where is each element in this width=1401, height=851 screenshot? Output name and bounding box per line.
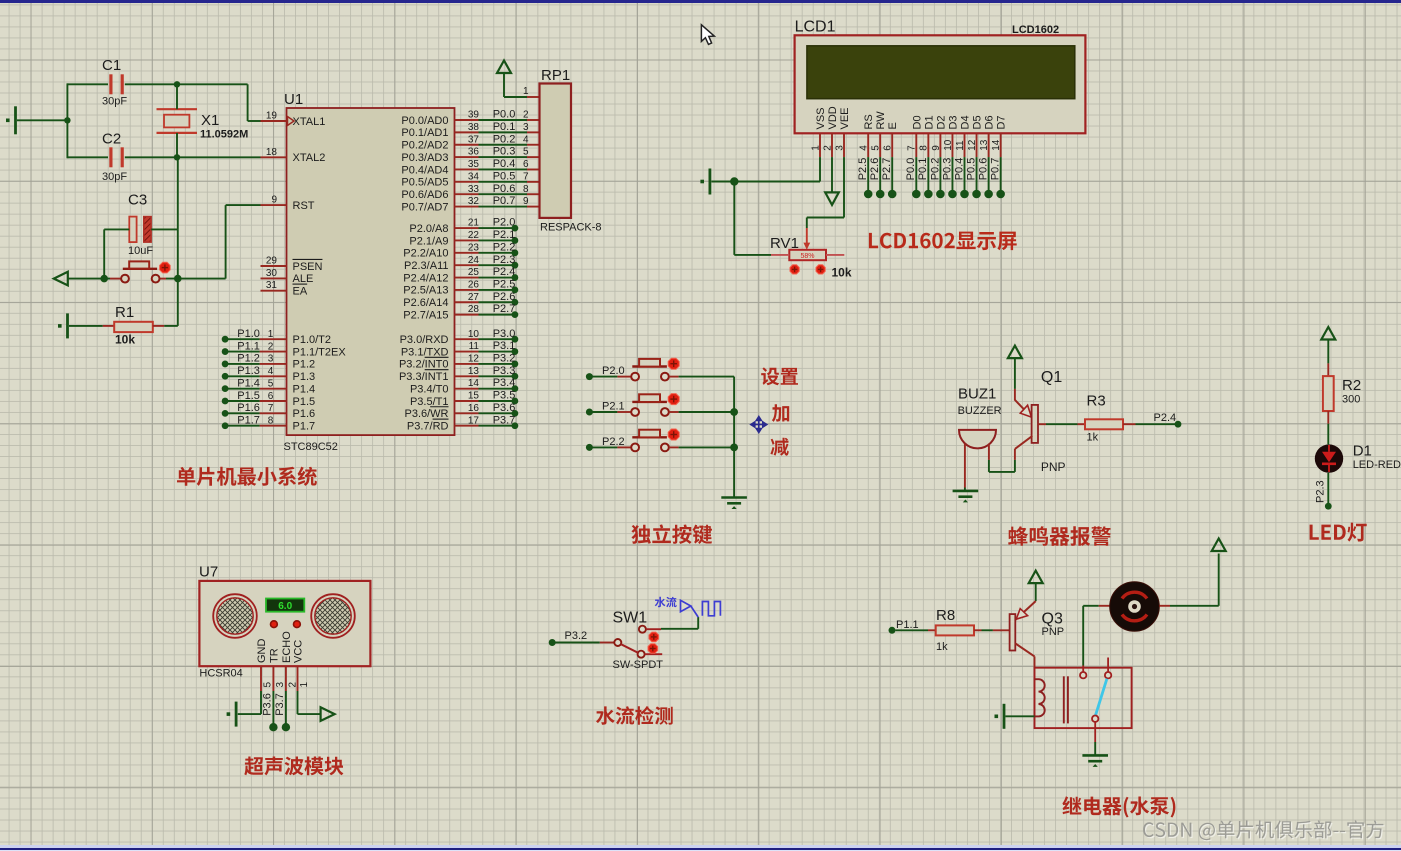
svg-text:31: 31 bbox=[266, 280, 278, 291]
ground (buzzer) bbox=[964, 488, 966, 491]
svg-text:PSEN: PSEN bbox=[293, 261, 323, 273]
wire/node P0.5 bbox=[976, 157, 978, 190]
diode D1 LED-RED bbox=[1315, 444, 1343, 472]
svg-text:2: 2 bbox=[822, 145, 833, 151]
svg-text:P0.0/AD0: P0.0/AD0 bbox=[401, 115, 448, 127]
svg-text:P0.1: P0.1 bbox=[493, 121, 516, 133]
caption: water flow detect bbox=[596, 706, 673, 725]
junction bbox=[174, 275, 182, 283]
svg-text:LCD1602: LCD1602 bbox=[1012, 24, 1059, 36]
svg-text:5: 5 bbox=[871, 145, 882, 151]
svg-text:D1: D1 bbox=[1353, 442, 1372, 459]
pin 2 P1.1 bbox=[260, 351, 287, 353]
svg-text:XTAL1: XTAL1 bbox=[293, 116, 326, 128]
svg-text:4: 4 bbox=[268, 366, 274, 377]
svg-text:P0.3: P0.3 bbox=[493, 146, 516, 158]
svg-text:P2.7: P2.7 bbox=[881, 158, 893, 181]
ground (R1) bbox=[66, 313, 69, 338]
pin 24 P2.3/A11 bbox=[455, 264, 479, 266]
wire bbox=[1094, 742, 1096, 755]
svg-text:VCC: VCC bbox=[293, 640, 305, 663]
svg-text:37: 37 bbox=[468, 134, 480, 145]
svg-text:P3.1/TXD: P3.1/TXD bbox=[401, 346, 449, 358]
pin 30 ALE bbox=[261, 277, 287, 279]
pin 3 RP1 bbox=[527, 131, 540, 133]
svg-text:30: 30 bbox=[266, 268, 278, 279]
svg-text:P2.6/A14: P2.6/A14 bbox=[403, 297, 448, 309]
svg-text:P2.1: P2.1 bbox=[602, 400, 625, 412]
pin 17 P3.7/RD bbox=[455, 425, 479, 427]
crystal X1 bbox=[164, 115, 189, 128]
wire/node P3.7 bbox=[285, 691, 287, 724]
pin 5 P1.4 bbox=[260, 388, 287, 390]
svg-text:23: 23 bbox=[468, 242, 480, 253]
svg-text:19: 19 bbox=[266, 111, 278, 122]
junction bbox=[100, 275, 108, 283]
node P2.0 bbox=[586, 373, 593, 380]
svg-text:5: 5 bbox=[268, 378, 274, 389]
svg-text:3: 3 bbox=[834, 145, 845, 151]
svg-text:GND: GND bbox=[256, 639, 268, 664]
wire bbox=[166, 278, 226, 280]
svg-text:D4: D4 bbox=[960, 115, 972, 129]
pin 9 RST bbox=[261, 204, 287, 206]
transistor Q1 PNP bbox=[1014, 389, 1016, 401]
svg-text:P0.0: P0.0 bbox=[905, 158, 917, 181]
svg-text:58%: 58% bbox=[800, 253, 814, 260]
ground (relay coil) bbox=[1003, 704, 1006, 729]
wire (Q1 base) bbox=[1046, 423, 1078, 425]
wire / node P2.4 bbox=[1136, 423, 1176, 425]
svg-text:34: 34 bbox=[468, 171, 480, 182]
svg-text:PNP: PNP bbox=[1042, 626, 1065, 638]
resistor R1 bbox=[103, 325, 114, 327]
svg-text:P3.0: P3.0 bbox=[493, 328, 516, 340]
svg-text:3: 3 bbox=[275, 682, 286, 688]
pin 26 P2.5/A13 bbox=[455, 289, 479, 291]
pin 23 P2.2/A10 bbox=[455, 252, 479, 254]
junction B bbox=[174, 154, 180, 160]
pin 2 RP1 bbox=[527, 119, 540, 121]
relay contacts bbox=[1082, 666, 1084, 672]
node P3.0 bbox=[479, 338, 515, 340]
pin 7 P1.6 bbox=[260, 412, 287, 414]
wire bbox=[896, 629, 929, 631]
mouse cursor bbox=[701, 25, 714, 45]
pin 27 P2.6/A14 bbox=[455, 301, 479, 303]
svg-text:P2.5/A13: P2.5/A13 bbox=[403, 285, 448, 297]
pin 13 P3.3/INT1 bbox=[455, 375, 479, 377]
capacitor C1 bbox=[67, 83, 108, 85]
svg-text:P0.1/AD1: P0.1/AD1 bbox=[401, 127, 448, 139]
svg-text:28: 28 bbox=[468, 304, 480, 315]
svg-text:11.0592M: 11.0592M bbox=[200, 129, 248, 141]
svg-text:P1.7: P1.7 bbox=[237, 415, 260, 427]
transistor Q3 PNP bbox=[993, 629, 1010, 631]
wire bbox=[103, 229, 105, 278]
wire/node P0.4 bbox=[964, 157, 966, 190]
junction A bbox=[174, 81, 180, 87]
pin 39 P0.0/AD0 bbox=[455, 119, 479, 121]
wire XTAL1 bbox=[177, 83, 248, 85]
svg-text:5: 5 bbox=[263, 682, 274, 688]
svg-text:6: 6 bbox=[268, 391, 274, 402]
svg-text:36: 36 bbox=[468, 147, 480, 158]
svg-text:8: 8 bbox=[523, 184, 529, 195]
wire/node P0.0 bbox=[915, 157, 917, 190]
signal generator (water flow) bbox=[681, 600, 721, 617]
svg-text:P2.2: P2.2 bbox=[602, 436, 625, 448]
svg-text:300: 300 bbox=[1342, 394, 1360, 406]
pin 28 P2.7/A15 bbox=[455, 314, 479, 316]
svg-text:27: 27 bbox=[468, 292, 480, 303]
svg-text:SW-SPDT: SW-SPDT bbox=[613, 659, 664, 671]
pin 14 P3.4/T0 bbox=[455, 388, 479, 390]
svg-text:P1.1/T2EX: P1.1/T2EX bbox=[293, 346, 347, 358]
svg-text:P1.5: P1.5 bbox=[293, 396, 316, 408]
svg-text:P2.5: P2.5 bbox=[857, 158, 869, 181]
svg-text:P2.3: P2.3 bbox=[493, 254, 516, 266]
pin 37 P0.2/AD2 bbox=[455, 144, 479, 146]
ground (LCD VSS) bbox=[709, 169, 712, 195]
origin marker bbox=[751, 417, 767, 433]
svg-text:10uF: 10uF bbox=[128, 245, 153, 257]
svg-text:P2.0/A8: P2.0/A8 bbox=[409, 223, 448, 235]
wire/node P2.5 bbox=[867, 157, 869, 190]
svg-text:R8: R8 bbox=[936, 607, 955, 624]
svg-text:BUZ1: BUZ1 bbox=[958, 386, 996, 403]
node P2.4 bbox=[479, 277, 515, 279]
node P2.3 bbox=[479, 264, 515, 266]
pot bobbles bbox=[790, 265, 799, 274]
svg-text:E: E bbox=[887, 122, 899, 129]
svg-text:STC89C52: STC89C52 bbox=[284, 441, 338, 453]
svg-text:13: 13 bbox=[468, 366, 480, 377]
svg-text:D1: D1 bbox=[923, 115, 935, 129]
wire bbox=[177, 157, 179, 180]
power arrow (U7 VCC) bbox=[297, 691, 299, 714]
pin 29 PSEN bbox=[261, 265, 287, 267]
svg-text:22: 22 bbox=[468, 230, 480, 241]
svg-text:7: 7 bbox=[523, 171, 529, 182]
svg-text:SW1: SW1 bbox=[613, 610, 648, 627]
caption: LCD1602 display bbox=[869, 232, 1017, 251]
svg-text:RST: RST bbox=[293, 200, 315, 212]
wire bbox=[66, 83, 68, 158]
svg-text:P3.4: P3.4 bbox=[493, 377, 516, 389]
svg-text:TR: TR bbox=[268, 648, 280, 663]
svg-text:XTAL2: XTAL2 bbox=[293, 152, 326, 164]
caption: LED lamp bbox=[1310, 523, 1367, 542]
svg-text:P2.7/A15: P2.7/A15 bbox=[403, 309, 448, 321]
node P3.2 bbox=[479, 363, 515, 365]
junction bbox=[64, 117, 70, 123]
pin 33 P0.6/AD6 bbox=[455, 193, 479, 195]
svg-text:P1.1: P1.1 bbox=[896, 619, 919, 631]
wire/node P2.6 bbox=[879, 157, 881, 190]
pin 8 P1.7 bbox=[260, 425, 287, 427]
svg-text:24: 24 bbox=[468, 255, 480, 266]
svg-text:P3.7: P3.7 bbox=[493, 414, 516, 426]
pin 5 RP1 bbox=[527, 156, 540, 158]
svg-text:C3: C3 bbox=[128, 192, 147, 209]
svg-text:12: 12 bbox=[967, 139, 978, 151]
wire / node P2.3 bbox=[1327, 473, 1329, 503]
svg-text:1: 1 bbox=[810, 145, 821, 151]
svg-text:VDD: VDD bbox=[827, 106, 839, 129]
svg-text:11: 11 bbox=[469, 341, 480, 352]
svg-text:P1.7: P1.7 bbox=[293, 421, 316, 433]
svg-text:39: 39 bbox=[468, 110, 480, 121]
pin 1 P1.0 bbox=[260, 338, 287, 340]
caption: relay water pump bbox=[1062, 796, 1175, 817]
svg-text:C1: C1 bbox=[102, 57, 121, 74]
wire VSS bbox=[712, 181, 735, 183]
svg-text:C2: C2 bbox=[102, 131, 121, 148]
svg-text:P3.5: P3.5 bbox=[493, 390, 516, 402]
svg-text:P1.0: P1.0 bbox=[237, 328, 260, 340]
pin 4 RP1 bbox=[527, 144, 540, 146]
wire XTAL2 bbox=[177, 156, 261, 158]
wire bbox=[679, 376, 735, 378]
svg-text:1k: 1k bbox=[936, 641, 948, 653]
power arrow (Q1) bbox=[1008, 346, 1022, 359]
svg-text:17: 17 bbox=[468, 415, 480, 426]
svg-text:P3.6: P3.6 bbox=[262, 693, 274, 716]
svg-text:3: 3 bbox=[268, 354, 274, 365]
svg-text:5: 5 bbox=[523, 147, 529, 158]
svg-text:P3.3: P3.3 bbox=[493, 365, 516, 377]
svg-text:P2.1/A9: P2.1/A9 bbox=[409, 235, 448, 247]
svg-text:6: 6 bbox=[883, 145, 894, 151]
wire bbox=[988, 460, 990, 472]
wire/node P2.7 bbox=[891, 157, 893, 190]
pin 25 P2.4/A12 bbox=[455, 277, 479, 279]
svg-text:P0.7: P0.7 bbox=[990, 158, 1002, 181]
caption: minus bbox=[770, 438, 788, 456]
svg-text:30pF: 30pF bbox=[102, 96, 127, 108]
svg-text:D0: D0 bbox=[911, 115, 923, 129]
svg-text:25: 25 bbox=[468, 267, 480, 278]
svg-text:P3.1: P3.1 bbox=[493, 340, 516, 352]
svg-text:9: 9 bbox=[271, 195, 277, 206]
node P3.3 bbox=[479, 375, 515, 377]
pin 3 P1.2 bbox=[260, 363, 287, 365]
wire P0.6 bbox=[479, 193, 528, 195]
junction bbox=[730, 408, 738, 416]
node P3.1 bbox=[479, 351, 515, 353]
svg-text:P1.0/T2: P1.0/T2 bbox=[293, 334, 332, 346]
svg-text:7: 7 bbox=[268, 403, 274, 414]
svg-text:Q1: Q1 bbox=[1041, 369, 1062, 386]
resistor pack RP1 bbox=[527, 96, 540, 98]
svg-text:P3.3/INT1: P3.3/INT1 bbox=[399, 371, 449, 383]
svg-text:4: 4 bbox=[859, 145, 870, 151]
wire/node P0.1 bbox=[927, 157, 929, 190]
svg-text:P2.2/A10: P2.2/A10 bbox=[403, 248, 448, 260]
ground (relay contact) bbox=[1082, 754, 1108, 757]
push button P2.0 bbox=[617, 376, 631, 378]
svg-text:P3.7: P3.7 bbox=[274, 693, 286, 716]
wire (motor left) bbox=[1082, 606, 1084, 666]
svg-text:29: 29 bbox=[266, 256, 278, 267]
wire bbox=[733, 182, 735, 255]
svg-text:26: 26 bbox=[468, 280, 480, 291]
svg-text:R3: R3 bbox=[1087, 393, 1106, 410]
node P3.2 bbox=[549, 639, 556, 646]
svg-text:11: 11 bbox=[955, 140, 966, 151]
pin 9 RP1 bbox=[527, 206, 540, 208]
svg-text:P0.4: P0.4 bbox=[493, 158, 516, 170]
svg-text:33: 33 bbox=[468, 184, 480, 195]
node P2.2 bbox=[586, 444, 593, 451]
wire/node P0.6 bbox=[988, 157, 990, 190]
power arrow (LED) bbox=[1321, 327, 1335, 340]
wire P0.1 bbox=[479, 131, 528, 133]
svg-text:ALE: ALE bbox=[293, 273, 314, 285]
ground (U7 GND) bbox=[235, 702, 238, 727]
svg-text:35: 35 bbox=[468, 159, 480, 170]
power arrow (Q3) bbox=[1029, 571, 1043, 584]
svg-text:P0.4/AD4: P0.4/AD4 bbox=[401, 164, 448, 176]
svg-text:P0.6: P0.6 bbox=[978, 158, 990, 181]
node P3.5 bbox=[479, 400, 515, 402]
svg-text:HCSR04: HCSR04 bbox=[199, 667, 242, 679]
svg-text:VEE: VEE bbox=[839, 107, 851, 129]
svg-text:6.0: 6.0 bbox=[278, 601, 292, 612]
svg-text:P2.3: P2.3 bbox=[1314, 480, 1326, 503]
svg-text:14: 14 bbox=[991, 139, 1002, 151]
pin 11 P3.1/TXD bbox=[455, 351, 479, 353]
power arrow (motor) bbox=[1212, 539, 1226, 552]
pin 16 P3.6/WR bbox=[455, 412, 479, 414]
push button P2.1 bbox=[617, 411, 631, 413]
wire bbox=[679, 411, 735, 413]
svg-text:RW: RW bbox=[875, 111, 887, 130]
svg-text:P1.4: P1.4 bbox=[237, 377, 260, 389]
svg-text:X1: X1 bbox=[201, 112, 219, 129]
svg-text:2: 2 bbox=[523, 110, 529, 121]
svg-text:D2: D2 bbox=[935, 115, 947, 129]
svg-text:LCD1: LCD1 bbox=[795, 19, 836, 36]
svg-text:P3.6/WR: P3.6/WR bbox=[404, 408, 448, 420]
power arrow (LCD VDD) bbox=[831, 157, 833, 192]
caption: buzzer alarm bbox=[1008, 526, 1111, 546]
svg-text:P0.6: P0.6 bbox=[493, 183, 516, 195]
svg-text:9: 9 bbox=[523, 196, 529, 207]
pin 12 P3.2/INT0 bbox=[455, 363, 479, 365]
node P2.1 bbox=[479, 239, 515, 241]
svg-text:1: 1 bbox=[268, 329, 274, 340]
svg-text:P3.6: P3.6 bbox=[493, 402, 516, 414]
svg-text:P0.6/AD6: P0.6/AD6 bbox=[401, 189, 448, 201]
svg-text:30pF: 30pF bbox=[102, 171, 127, 183]
wire P0.0 bbox=[479, 119, 528, 121]
resistor R3 bbox=[1078, 423, 1086, 425]
svg-text:1k: 1k bbox=[1087, 432, 1099, 444]
caption: set bbox=[761, 367, 798, 385]
svg-text:P0.4: P0.4 bbox=[953, 158, 965, 181]
wire (motor right) bbox=[1170, 605, 1219, 607]
caption: ultrasonic module bbox=[244, 757, 343, 776]
node P1.1 bbox=[889, 627, 896, 634]
pin 22 P2.1/A9 bbox=[455, 239, 479, 241]
svg-text:P0.7: P0.7 bbox=[493, 195, 516, 207]
svg-text:D5: D5 bbox=[972, 115, 984, 129]
svg-text:P3.0/RXD: P3.0/RXD bbox=[400, 334, 449, 346]
svg-text:P2.4/A12: P2.4/A12 bbox=[403, 272, 448, 284]
pin 6 P1.5 bbox=[260, 400, 287, 402]
pin 6 RP1 bbox=[527, 168, 540, 170]
wire bbox=[69, 325, 103, 327]
svg-text:3: 3 bbox=[523, 122, 529, 133]
svg-text:P1.5: P1.5 bbox=[237, 390, 260, 402]
caption: independent keys bbox=[631, 524, 712, 544]
resistor R2 bbox=[1327, 363, 1329, 376]
svg-text:RESPACK-8: RESPACK-8 bbox=[540, 221, 602, 233]
wire/node P0.7 bbox=[1000, 157, 1002, 190]
svg-text:P0.3: P0.3 bbox=[941, 158, 953, 181]
svg-text:P2.4: P2.4 bbox=[1154, 412, 1177, 424]
svg-text:P0.1: P0.1 bbox=[917, 158, 929, 181]
svg-text:PNP: PNP bbox=[1041, 460, 1066, 474]
svg-text:P0.3/AD3: P0.3/AD3 bbox=[401, 152, 448, 164]
svg-text:P2.0: P2.0 bbox=[602, 365, 625, 377]
svg-text:16: 16 bbox=[468, 403, 480, 414]
label: water flow (blue) bbox=[655, 597, 677, 608]
wire bbox=[164, 325, 178, 327]
svg-text:RS: RS bbox=[863, 114, 875, 129]
svg-text:18: 18 bbox=[266, 147, 278, 158]
svg-text:P2.3/A11: P2.3/A11 bbox=[404, 260, 448, 272]
capacitor C2 bbox=[67, 156, 108, 158]
wire bbox=[68, 278, 110, 280]
svg-text:P1.6: P1.6 bbox=[293, 408, 316, 420]
svg-text:P2.6: P2.6 bbox=[869, 158, 881, 181]
svg-text:P2.5: P2.5 bbox=[493, 279, 516, 291]
svg-text:P3.2: P3.2 bbox=[493, 353, 516, 365]
svg-text:P0.0: P0.0 bbox=[493, 109, 516, 121]
wire bbox=[679, 446, 735, 448]
wire bbox=[661, 628, 698, 630]
wire P0.2 bbox=[479, 144, 528, 146]
svg-text:38: 38 bbox=[468, 122, 480, 133]
node P3.6 bbox=[479, 412, 515, 414]
push button P2.2 bbox=[617, 446, 631, 448]
svg-text:7: 7 bbox=[907, 145, 918, 151]
pin 10 P3.0/RXD bbox=[455, 338, 479, 340]
svg-text:32: 32 bbox=[468, 196, 480, 207]
wire bbox=[1327, 424, 1329, 445]
pin 31 EA bbox=[261, 290, 287, 292]
svg-text:VSS: VSS bbox=[815, 107, 827, 129]
wire VEE bbox=[843, 157, 845, 217]
svg-text:1: 1 bbox=[299, 682, 310, 688]
node P3.7 bbox=[479, 425, 515, 427]
wire bbox=[982, 629, 993, 631]
svg-text:P2.7: P2.7 bbox=[493, 303, 516, 315]
junction bbox=[730, 177, 738, 185]
pin 7 RP1 bbox=[527, 181, 540, 183]
node P2.1 bbox=[586, 409, 593, 416]
svg-text:9: 9 bbox=[931, 145, 942, 151]
pin 8 RP1 bbox=[527, 193, 540, 195]
svg-text:ECHO: ECHO bbox=[281, 631, 293, 663]
wire/node P3.6 bbox=[272, 691, 274, 724]
svg-text:R2: R2 bbox=[1342, 377, 1361, 394]
ground (crystal caps) bbox=[14, 106, 17, 134]
wire P0.5 bbox=[479, 181, 528, 183]
